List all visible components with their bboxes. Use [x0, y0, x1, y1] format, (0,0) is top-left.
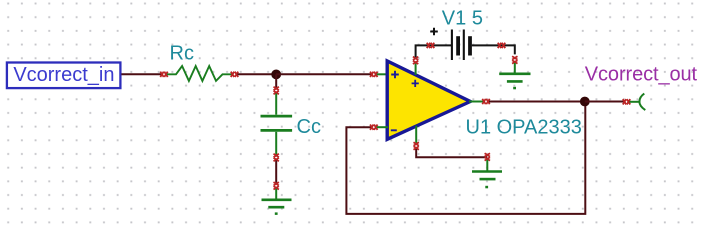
pin marker: battery V1 left pin [427, 43, 434, 48]
svg-text:V1 5: V1 5 [442, 8, 483, 30]
pin marker: Cc top pin [274, 87, 279, 94]
input port Vcorrect_in [7, 63, 121, 89]
pin marker: op-amp -input pin [370, 125, 377, 130]
wire: Cc to ground G1 [275, 161, 277, 183]
pin marker: ground G2 pin [512, 56, 517, 63]
wire: op-amp V- to ground G3 [416, 149, 487, 157]
wire: node A to op-amp +input [276, 73, 371, 75]
feedback wire: node B down, across bottom, up to -input [346, 106, 585, 214]
wire pin: op-amp output lead [469, 101, 483, 103]
wire pin: +input green lead [377, 73, 388, 75]
ground G3 (below op-amp) [472, 160, 502, 188]
label Rc [170, 43, 194, 65]
label Cc [297, 116, 321, 138]
pin marker: ground G1 pin [274, 182, 279, 189]
pin marker: battery V1 right lead [498, 43, 505, 48]
wire: op-amp output to node B [489, 101, 585, 103]
pin marker: Cc bottom pin [274, 154, 279, 161]
wire: node B to output terminal [585, 101, 624, 103]
wire pin: op-amp V+ top pin [415, 63, 417, 75]
pin marker: Rc right pin [231, 72, 238, 77]
wire: battery right lead to ground G2 [472, 45, 515, 54]
pin marker: op-amp V- pin [414, 142, 419, 149]
pin marker: Rc left pin [160, 72, 167, 77]
node B junction [580, 97, 590, 107]
wire: Rc to node A [238, 73, 277, 75]
svg-text:U1 OPA2333: U1 OPA2333 [466, 116, 582, 138]
pin marker: ground G3 pin [485, 153, 490, 160]
ground G1 (below Cc) [262, 189, 292, 215]
svg-text:Cc: Cc [297, 116, 321, 138]
label U1 OPA2333 [466, 116, 582, 138]
label Vcorrect_out [585, 64, 698, 86]
svg-text:Vcorrect_out: Vcorrect_out [585, 64, 698, 86]
wire: port to resistor Rc [121, 73, 161, 75]
ground G2 (right of battery) [499, 63, 530, 89]
svg-text:Vcorrect_in: Vcorrect_in [13, 64, 114, 86]
op-amp U1 [387, 61, 470, 139]
pin marker: output terminal pin [623, 99, 630, 104]
wire pin: -input green lead [377, 126, 388, 128]
label V1 5 [442, 8, 483, 30]
wire: node A down to capacitor [275, 74, 277, 87]
capacitor Cc [261, 94, 293, 155]
pin marker: op-amp V+ pin [413, 57, 418, 64]
pin marker: op-amp +input pin [370, 72, 377, 77]
svg-text:Rc: Rc [170, 43, 194, 65]
output terminal Vcorrect_out pin symbol [630, 94, 646, 111]
node A junction [271, 70, 281, 80]
wire: battery left lead to op-amp V+ [416, 45, 452, 57]
wire pin: op-amp V- bottom pin [415, 126, 417, 143]
pin marker: op-amp output pin [482, 99, 489, 104]
battery V1 [430, 28, 470, 60]
resistor Rc [167, 66, 232, 81]
